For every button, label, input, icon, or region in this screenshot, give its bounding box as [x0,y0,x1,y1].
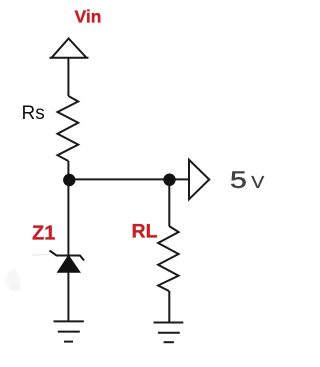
resistor RL [158,226,179,291]
watermark smudge [6,270,21,291]
zener diode Z1 cathode bar [50,251,85,261]
source arrow (Vin terminal) [50,39,89,58]
ground (right) [154,323,184,343]
resistor Rs [58,96,79,161]
output buffer arrow (5V terminal) [189,160,209,200]
wire node A to node B [68,178,189,180]
wire Z1 to ground [67,272,69,321]
wire Rs to node A [67,161,69,180]
svg-text:5: 5 [230,166,247,193]
node A junction dot [63,174,75,186]
svg-text:Rs: Rs [22,103,45,124]
svg-text:RL: RL [132,221,158,243]
wire RL to ground [168,291,170,323]
wire node B to RL [168,180,170,226]
node B junction dot [163,174,175,186]
ground (left) [54,321,84,341]
wire node A to zener Z1 [67,180,69,256]
wire Vin to Rs [67,58,69,96]
svg-text:Z1: Z1 [32,223,55,245]
svg-text:V: V [251,172,265,192]
svg-text:Vin: Vin [75,7,102,27]
faint erased-line artifact [32,254,49,257]
zener diode Z1 anode triangle [58,256,81,273]
